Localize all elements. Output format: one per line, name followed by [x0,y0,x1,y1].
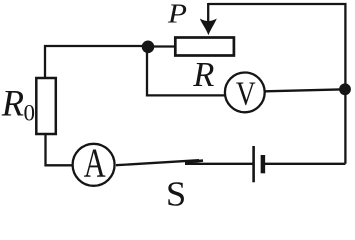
wire: node down and right to voltmeter [147,47,225,95]
svg-text:P: P [167,0,187,29]
wire: node to rheostat R left terminal [148,45,176,47]
ammeter A [73,144,115,186]
switch S blade [116,160,199,165]
wire: R0 bottom to bottom-left corner to ammeter [46,134,73,165]
arrowhead of wiper P [200,19,217,36]
svg-text:V: V [236,74,256,113]
svg-text:A: A [84,140,106,185]
node: junction dot right [339,83,351,95]
wire: battery to bottom-right corner [264,163,345,165]
wire: top rail from P down arrow corner to right edge and down [208,4,345,164]
svg-text:R: R [1,82,24,123]
wire: switch contact to battery [185,163,253,165]
node: junction dot left (wiper tap) [142,41,155,54]
switch S contact tip [185,161,203,163]
wire: voltmeter to right rail [265,89,345,91]
rheostat R body [175,38,234,56]
svg-text:0: 0 [24,101,36,126]
wire: P wiper vertical stem [207,3,209,22]
wire: top-left horizontal from corner to node [45,46,148,79]
voltmeter V [225,73,265,113]
svg-text:S: S [166,174,186,208]
resistor R0 [36,78,56,134]
svg-text:R: R [192,56,214,94]
battery long plate (+) [252,146,255,182]
battery short plate (-) [261,155,266,173]
